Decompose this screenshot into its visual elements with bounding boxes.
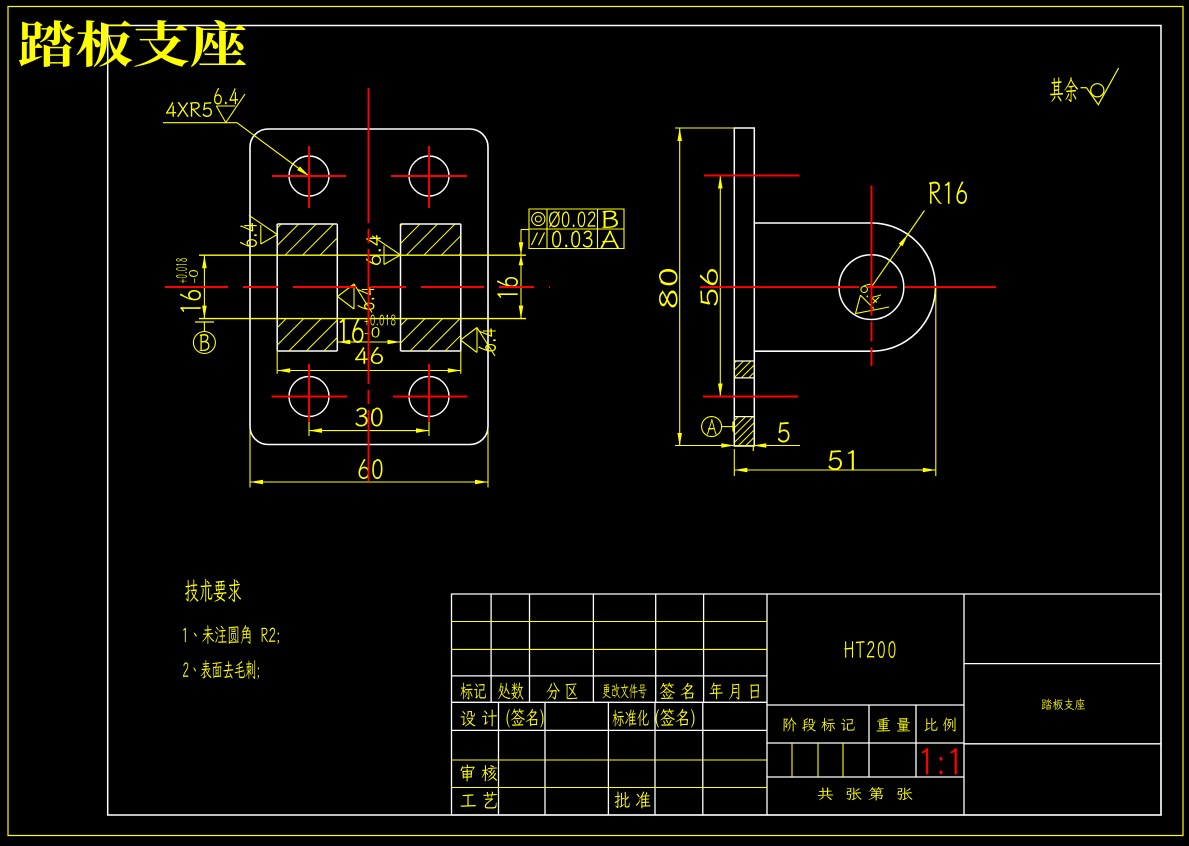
left section column outline (277, 224, 337, 351)
centerline cross bottom-left hole (272, 396, 348, 398)
centerline cross top-right hole (391, 175, 467, 177)
dimension 80 (675, 127, 734, 129)
side view plate outline (734, 128, 754, 446)
tolerance value row1 (549, 211, 595, 228)
parallelism symbol (532, 233, 538, 246)
geometric tolerance frame leader (521, 229, 529, 231)
label 4XR5 (166, 102, 212, 117)
side view boss semicircular end R16 (871, 223, 935, 351)
dimension 16 left tolerance +0.018/-0 (176, 258, 187, 283)
square hole lower edge line / extension line (199, 318, 526, 320)
square hole upper edge line / extension line (199, 254, 526, 256)
radius label R16 leader (871, 211, 924, 288)
front view hole top-left (R5) (289, 156, 329, 196)
centerline vertical main (front) (368, 88, 370, 481)
side centerline bottom hole (703, 396, 798, 398)
4XR5 leader (163, 122, 237, 124)
right section column outline (401, 224, 461, 351)
tolerance value row2 (552, 230, 593, 247)
rest-roughness note: text 其余 (1050, 77, 1078, 102)
centerline cross top-left hole (272, 175, 346, 177)
title block row labels (460, 683, 486, 700)
front view hole bottom-right (R5) (409, 377, 449, 417)
dimension 56 (719, 176, 721, 397)
title block yellow lines (452, 622, 844, 788)
roughness symbol right column left edge (372, 236, 400, 265)
hatch right column top band (401, 224, 461, 255)
hatch left column top band (277, 224, 337, 255)
tech req line 2 (183, 660, 259, 679)
title block outer and white grid (452, 594, 1162, 815)
dimension 51 (733, 449, 735, 476)
side view boss top edge (754, 222, 871, 224)
side view hole circle Dia16 (839, 255, 904, 320)
dimension 16 left: extension+dim line (203, 255, 205, 318)
dimension 60 (249, 430, 251, 487)
roughness symbol left column right edge (338, 284, 373, 313)
datum A symbol (702, 417, 722, 437)
technical requirements title (185, 579, 241, 602)
roughness symbol near 4XR5 (216, 94, 245, 122)
drawing title 踏板支座 (19, 20, 246, 67)
front view hole bottom-left (R5) (289, 377, 329, 417)
roughness symbol left column left edge (249, 215, 277, 244)
rest-roughness symbol with circle (1087, 68, 1119, 105)
tech req line 1 (183, 625, 279, 644)
front view part outline (rounded rectangle 60x80) (250, 129, 488, 445)
dimension 30 (308, 402, 310, 436)
dimension 16 middle (between columns) (337, 341, 400, 343)
centerline horizontal main (front) (165, 286, 550, 288)
side centerline horizontal main (700, 286, 996, 288)
dimension 16 left text (180, 290, 201, 312)
dimension 46 (276, 351, 278, 374)
front view hole top-right (R5) (409, 156, 449, 196)
hatch right column bottom band (401, 319, 461, 351)
side centerline top hole (704, 175, 800, 177)
side view hatch band lower (734, 417, 754, 446)
dimension 16 right: dim line (520, 230, 522, 319)
side view boss bottom edge (754, 350, 871, 352)
hatch left column bottom band (277, 319, 337, 351)
dimension 16 right text (497, 277, 518, 298)
concentricity symbol (532, 212, 545, 225)
geometric tolerance frame (529, 209, 624, 249)
scale 1:1 (922, 748, 957, 774)
dimension 5 (721, 443, 734, 448)
roughness symbol right column right edge (461, 328, 496, 357)
datum B symbol (195, 321, 214, 323)
roughness symbol in side hole (856, 295, 890, 313)
side view plate section band lines (734, 360, 754, 362)
centerline cross bottom-right hole (393, 396, 468, 398)
material HT200 (844, 641, 895, 658)
side centerline vertical hole (871, 186, 873, 367)
part name in title block (1041, 698, 1085, 710)
side view hatch band upper (734, 361, 754, 378)
